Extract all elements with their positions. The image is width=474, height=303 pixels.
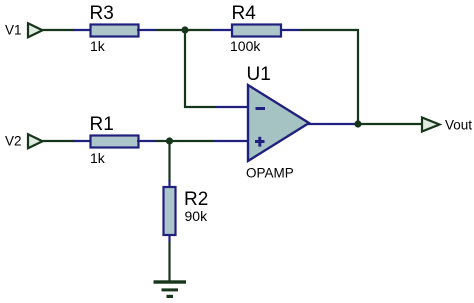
junction node B (R1/R2/non-inverting) bbox=[166, 137, 173, 144]
svg-text:90k: 90k bbox=[185, 208, 209, 224]
svg-text:OPAMP: OPAMP bbox=[246, 165, 294, 180]
pin U1 output bbox=[308, 123, 357, 125]
wire R1 to op-amp bbox=[156, 140, 213, 142]
U1 plus symbol bbox=[255, 137, 265, 147]
junction node OUT bbox=[354, 120, 361, 127]
U1 minus symbol bbox=[256, 107, 266, 110]
wire output to Vout bbox=[358, 123, 422, 125]
wire R2 to ground bbox=[168, 242, 170, 281]
svg-text:1k: 1k bbox=[90, 150, 106, 166]
svg-text:R3: R3 bbox=[90, 3, 114, 24]
wire feedback R4 to output node bbox=[299, 30, 358, 124]
resistor R2 bbox=[164, 187, 176, 235]
pin R4 right bbox=[280, 29, 299, 31]
svg-text:R1: R1 bbox=[90, 114, 114, 135]
wire R3 to R4 bbox=[156, 29, 212, 31]
pin R3 right bbox=[137, 29, 156, 31]
svg-text:R2: R2 bbox=[184, 189, 208, 210]
pin R1 right bbox=[137, 140, 156, 142]
resistor R3 bbox=[91, 25, 139, 37]
pin U1 non-inverting input bbox=[213, 140, 248, 142]
svg-text:100k: 100k bbox=[230, 38, 261, 54]
node V2 input terminal bbox=[28, 134, 43, 148]
svg-text:V1: V1 bbox=[5, 23, 22, 38]
wire node A down to inverting input bbox=[185, 30, 216, 107]
wire node B down to R2 bbox=[168, 141, 170, 181]
svg-text:Vout: Vout bbox=[445, 118, 472, 133]
ground bbox=[154, 280, 187, 298]
pin R3 left bbox=[73, 29, 92, 31]
pin R1 left bbox=[73, 140, 92, 142]
node V1 input terminal bbox=[28, 23, 43, 37]
svg-text:R4: R4 bbox=[232, 3, 257, 24]
node Vout output terminal bbox=[422, 118, 440, 132]
pin R2 bottom bbox=[168, 234, 170, 242]
op-amp U1 body bbox=[248, 85, 309, 161]
svg-text:U1: U1 bbox=[247, 64, 271, 85]
wire V1 to R3 bbox=[43, 29, 75, 31]
pin R4 left bbox=[212, 29, 233, 31]
svg-text:V2: V2 bbox=[5, 134, 22, 149]
junction node A (R3/R4/inverting) bbox=[181, 26, 188, 33]
wire V2 to R1 bbox=[43, 140, 75, 142]
resistor R4 bbox=[232, 25, 281, 37]
pin U1 inverting input bbox=[216, 106, 248, 108]
pin R2 top bbox=[168, 180, 170, 188]
resistor R1 bbox=[91, 136, 139, 148]
svg-text:1k: 1k bbox=[90, 38, 106, 54]
